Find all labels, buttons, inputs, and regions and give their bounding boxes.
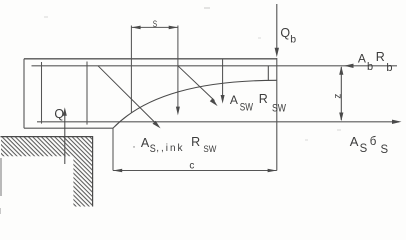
s dimension line — [131, 26, 178, 28]
svg-text:A: A — [141, 136, 150, 150]
svg-text:б: б — [370, 136, 377, 148]
svg-text:S: S — [150, 143, 156, 155]
svg-text:R: R — [259, 92, 268, 106]
scan noise left edge — [0, 158, 2, 196]
svg-text:SW: SW — [203, 144, 216, 154]
svg-text:S: S — [153, 19, 157, 29]
svg-text:A: A — [350, 134, 359, 149]
arrow head As sigma s (right) — [392, 120, 402, 124]
force arrow Ab Rb (pointing left) — [344, 64, 354, 68]
beam left edge — [23, 59, 25, 128]
svg-text:b: b — [386, 62, 392, 74]
bottom chord line (to As sigma s) — [37, 121, 399, 123]
svg-text:SW: SW — [240, 102, 254, 114]
reaction arrow Q — [64, 112, 66, 164]
vertical stirrup force arrow Asw Rsw — [222, 60, 224, 99]
svg-text:Q: Q — [54, 107, 64, 121]
svg-text:A: A — [358, 52, 366, 66]
svg-text:A: A — [230, 93, 238, 107]
svg-text:,,ink: ,,ink — [156, 143, 184, 154]
c dimension left extension — [112, 128, 114, 170]
stirrup 2 — [86, 62, 88, 125]
compression zone step — [267, 66, 269, 81]
inclined crack line with arrow — [98, 66, 158, 125]
svg-text:b: b — [290, 34, 296, 46]
load arrow Qb — [276, 4, 278, 52]
inclined stirrup force arrow — [178, 66, 215, 101]
stirrup 3 / s-dim left extension — [130, 26, 132, 113]
svg-text:R: R — [191, 135, 200, 149]
svg-text:S: S — [381, 142, 389, 156]
z dimension line — [340, 67, 342, 120]
svg-text:b: b — [367, 61, 373, 73]
scan specks — [204, 7, 210, 9]
svg-text:SW: SW — [272, 102, 286, 114]
stirrup 4 / s-dim right extension / stirrup force arrow — [177, 26, 179, 111]
svg-text:R: R — [376, 50, 385, 64]
svg-text:Q: Q — [280, 26, 290, 40]
inclined crack arc — [113, 80, 277, 128]
beam right section line — [276, 58, 278, 171]
svg-text:.: . — [133, 140, 136, 151]
top chord line (to Ab Rb) — [32, 65, 398, 67]
svg-text:S: S — [360, 141, 368, 155]
svg-text:z: z — [332, 94, 343, 99]
c dimension line — [113, 170, 277, 172]
support wall corner (hatched) — [1, 137, 93, 207]
beam top edge — [24, 58, 277, 60]
beam bottom edge — [24, 127, 113, 129]
svg-text:c: c — [189, 160, 194, 171]
stirrup 1 — [41, 62, 43, 124]
